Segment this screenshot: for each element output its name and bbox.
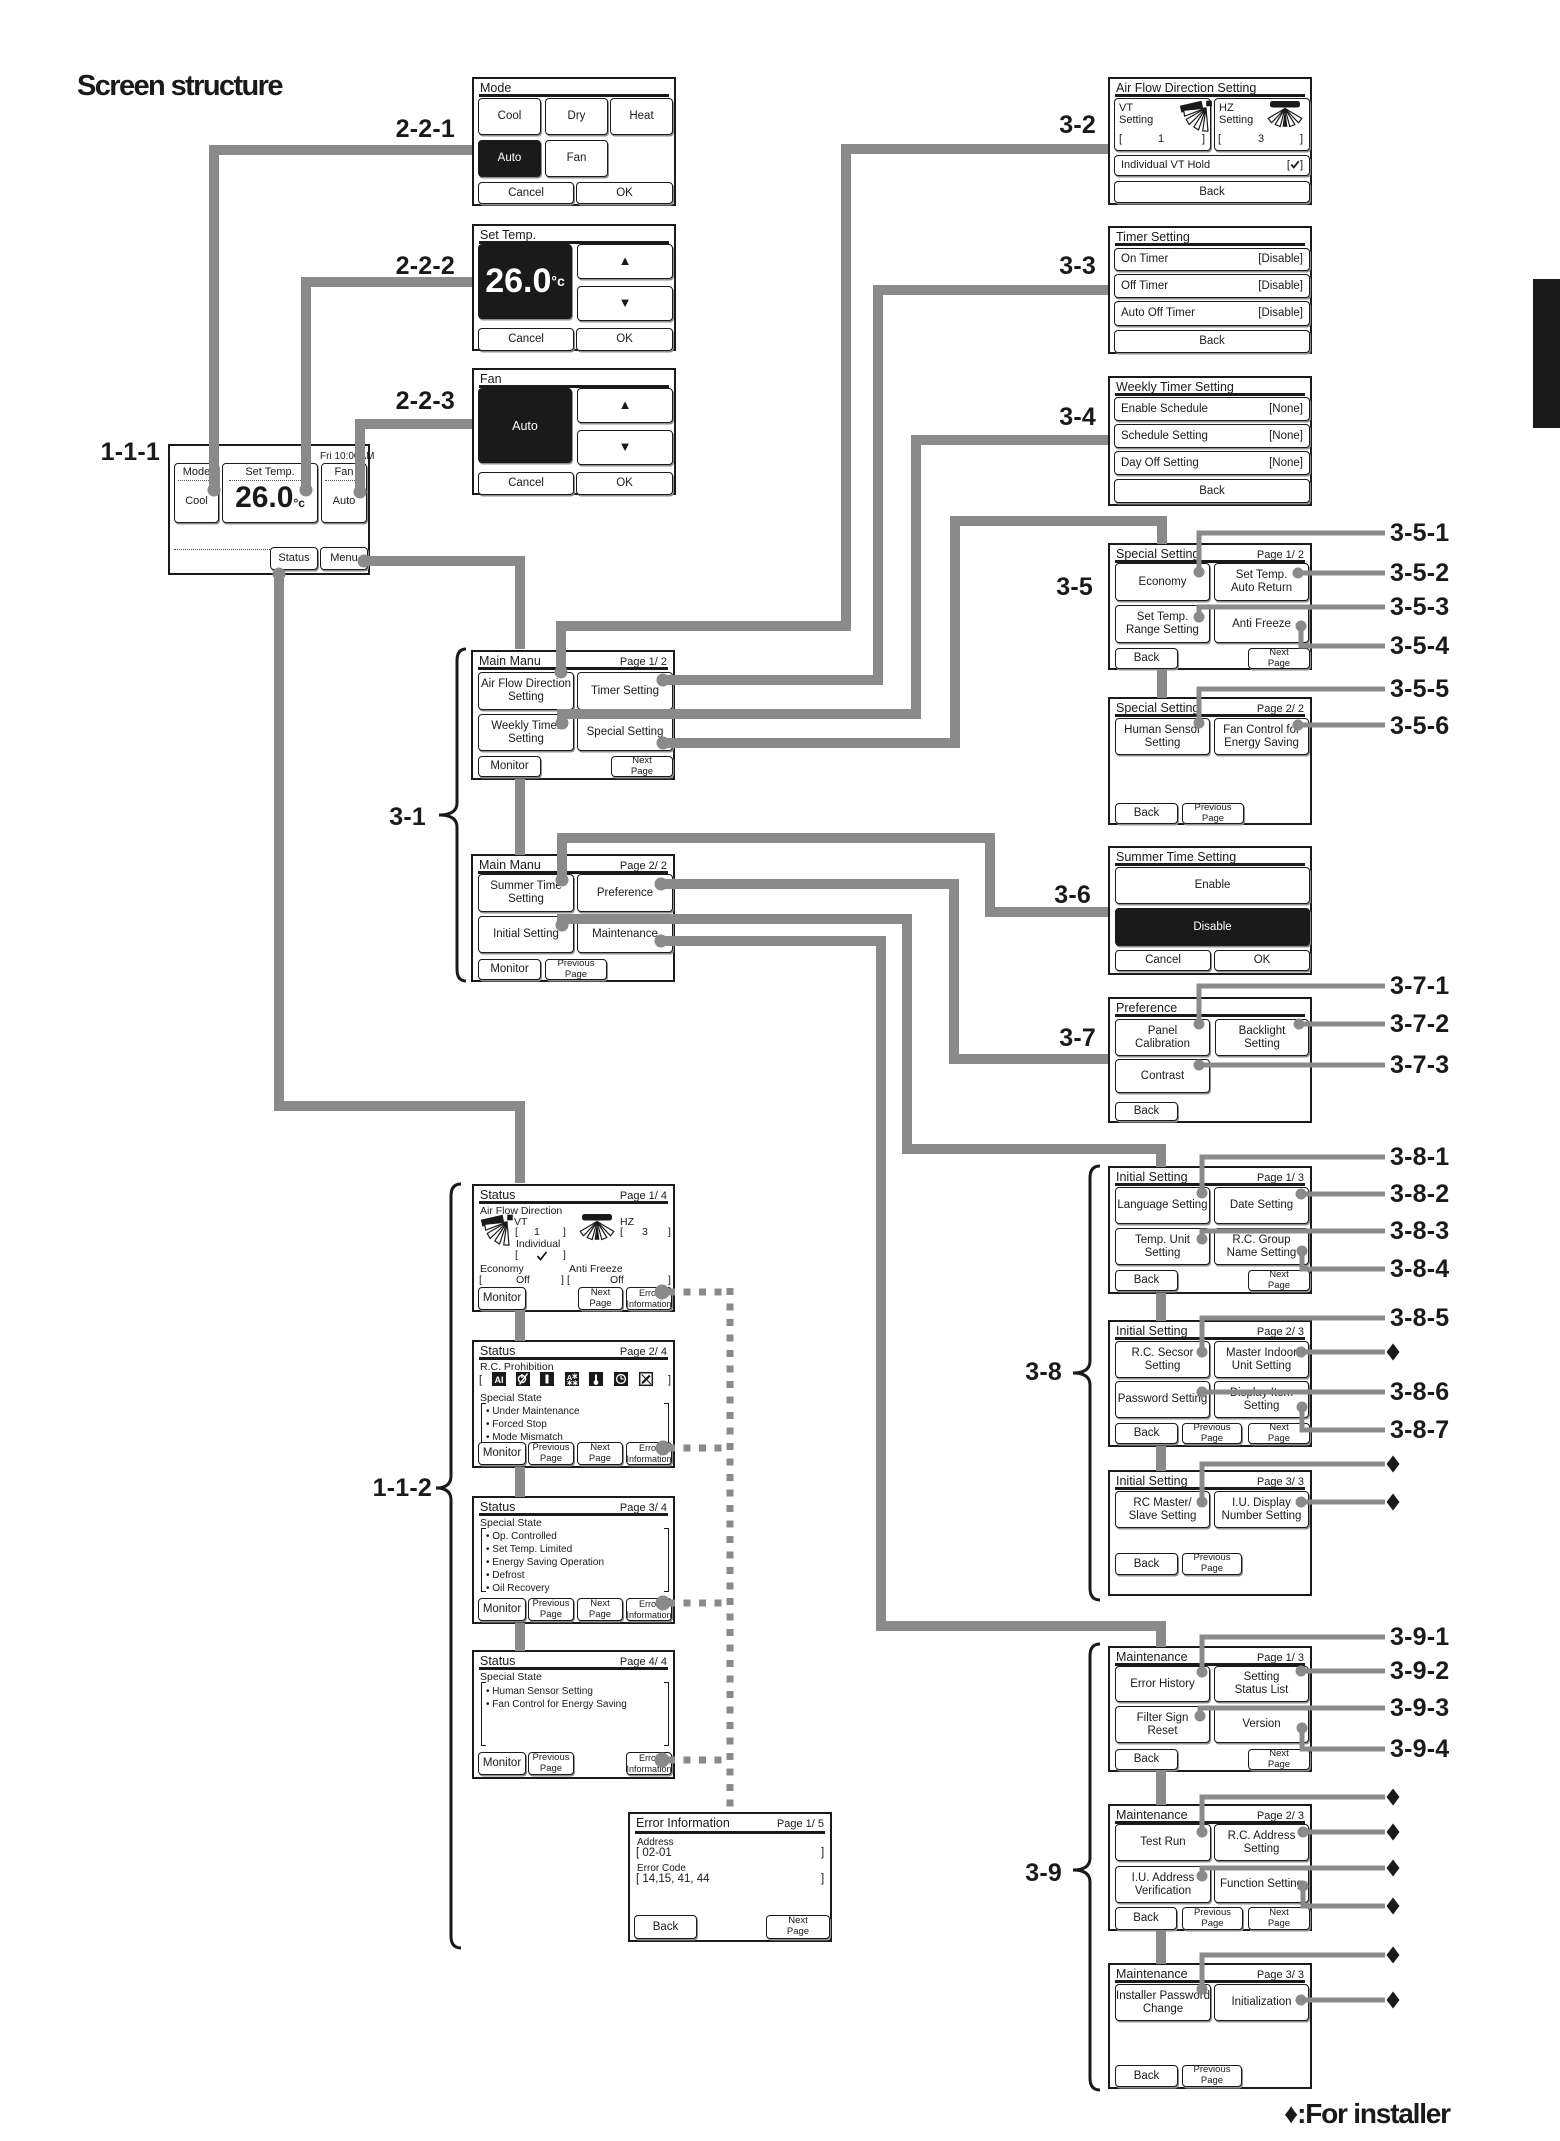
wire 3-5 Special Setting wire bbox=[663, 521, 1162, 743]
label 3-2 bbox=[946, 111, 1096, 140]
node 3-6 tap on Summer Time Setting bbox=[556, 874, 569, 887]
wire 3-7 Preference wire bbox=[661, 884, 1108, 1059]
wire installer pointer from Initialization bbox=[1296, 1995, 1386, 2006]
screen 2-2-3 Fan bbox=[472, 368, 676, 495]
wire installer pointer from IU Display Number bbox=[1296, 1497, 1386, 1508]
node 3-5 tap on Special Setting bbox=[657, 737, 670, 750]
label 1-1-1 bbox=[10, 438, 160, 467]
label 3-7 bbox=[946, 1024, 1096, 1053]
wire 3-8-1 pointer from Language Setting bbox=[1197, 1157, 1386, 1199]
node 3-9 tap on Maintenance bbox=[655, 935, 668, 948]
wire 3-5-4 pointer from Anti Freeze bbox=[1296, 621, 1386, 647]
screen 3-4 Weekly Timer Setting bbox=[1108, 376, 1312, 506]
wire Initial 1/3 to 2/3 connector bbox=[1156, 1293, 1166, 1321]
label 3-7-3 bbox=[1390, 1051, 1449, 1080]
label 3-5-6 bbox=[1390, 712, 1449, 741]
label 3-5-5 bbox=[1390, 675, 1449, 704]
screen Status page 3/4 bbox=[472, 1496, 675, 1624]
HZ icon in Status 1/4 bbox=[580, 1214, 614, 1240]
wire Special 1/2 to 2/2 connector bbox=[1157, 669, 1167, 698]
wire installer pointer from Test Run bbox=[1197, 1797, 1386, 1838]
footnote diamond For installer bbox=[1284, 2098, 1450, 2130]
screen Status page 1/4 bbox=[472, 1184, 675, 1312]
brace 3-1 bbox=[439, 649, 466, 981]
wire installer pointer from RC Master Slave bbox=[1197, 1464, 1386, 1508]
label 3-9-2 bbox=[1390, 1657, 1449, 1686]
node 3-3 tap on Timer Setting bbox=[657, 674, 670, 687]
Initialization installer diamond marker bbox=[1387, 1992, 1400, 2009]
screen 3-8 Initial Setting page 1/3 bbox=[1108, 1166, 1312, 1294]
wire Main Manu 1/2 to 2/2 connector bbox=[515, 779, 525, 855]
screen 3-5 Special Setting page 1/2 bbox=[1108, 543, 1312, 670]
screen Main Manu page 2/2 bbox=[471, 854, 675, 982]
wire Status 3/4 to 4/4 connector bbox=[515, 1623, 525, 1651]
page title Screen structure bbox=[77, 70, 282, 103]
wire 3-8-4 pointer from R.C. Group Name Setting bbox=[1297, 1246, 1386, 1270]
VT icon in screen 3-2 bbox=[1180, 101, 1212, 132]
node tap on Menu bbox=[358, 555, 371, 568]
screen Special Setting page 2/2 bbox=[1108, 697, 1312, 825]
wire 3-5-5 pointer from Human Sensor Setting bbox=[1194, 689, 1386, 729]
wire dashed Error Information links bbox=[668, 1288, 730, 1811]
screen 3-7 Preference bbox=[1108, 997, 1312, 1123]
brace 3-8 bbox=[1073, 1166, 1100, 1600]
wire 3-8-7 pointer from Display Item Setting bbox=[1297, 1402, 1386, 1431]
wire Menu to Main Manu 1/2 bbox=[364, 561, 520, 649]
screen 3-3 Timer Setting bbox=[1108, 226, 1312, 354]
Function Setting installer diamond marker bbox=[1387, 1898, 1400, 1915]
R.C. Prohibition icons row bbox=[492, 1372, 652, 1386]
label 3-6 bbox=[941, 881, 1091, 910]
IU Display Number installer diamond marker bbox=[1387, 1494, 1400, 1511]
node error info tap 4 bbox=[655, 1753, 670, 1768]
label 3-5 bbox=[943, 573, 1093, 602]
label 3-3 bbox=[946, 252, 1096, 281]
screen Initial Setting page 3/3 bbox=[1108, 1470, 1312, 1596]
wire 3-5-2 pointer from Set Temp. Auto Return bbox=[1293, 568, 1386, 579]
screen Maintenance page 3/3 bbox=[1108, 1963, 1312, 2089]
wire 3-8 Initial Setting wire bbox=[562, 919, 1161, 1167]
screen 2-2-1 Mode bbox=[472, 77, 676, 206]
wire installer pointer from IU Address Verification bbox=[1197, 1868, 1386, 1882]
wire 3-3 Timer Setting wire bbox=[663, 290, 1108, 680]
node error info tap 2 bbox=[656, 1441, 671, 1456]
wire Maintenance 1/3 to 2/3 connector bbox=[1156, 1771, 1166, 1805]
wire 3-7-3 pointer from Contrast bbox=[1194, 1060, 1386, 1071]
screen 3-6 Summer Time Setting bbox=[1108, 846, 1312, 975]
wire 3-5-3 pointer from Set Temp. Range Setting bbox=[1194, 607, 1386, 623]
wire 3-5-6 pointer from Fan Control bbox=[1293, 720, 1386, 731]
HZ icon in screen 3-2 bbox=[1268, 101, 1302, 127]
wire Initial 2/3 to 3/3 connector bbox=[1156, 1446, 1166, 1471]
label 3-5-4 bbox=[1390, 632, 1449, 661]
Test Run installer diamond marker bbox=[1387, 1789, 1400, 1806]
wire 3-2 Air Flow Direction wire bbox=[561, 149, 1108, 672]
wire 2-2-3 from Fan to Fan screen bbox=[360, 424, 472, 492]
node 3-8 tap on Initial Setting bbox=[556, 919, 569, 932]
node 3-4 tap on Weekly Timer Setting bbox=[556, 717, 569, 730]
label 3-9-3 bbox=[1390, 1694, 1449, 1723]
node error info tap 1 bbox=[655, 1285, 670, 1300]
screen Status page 4/4 bbox=[472, 1650, 675, 1779]
node 2-2-2 tap on Set Temp. bbox=[300, 484, 313, 497]
RC Address installer diamond marker bbox=[1387, 1824, 1400, 1841]
wire installer pointer from Installer Password Change bbox=[1197, 1955, 1386, 1995]
label 3-1 bbox=[276, 803, 426, 832]
Installer Password installer diamond marker bbox=[1387, 1947, 1400, 1964]
label 3-9-4 bbox=[1390, 1735, 1449, 1764]
wire 3-6 Summer Time wire bbox=[562, 838, 1108, 912]
label 3-7-2 bbox=[1390, 1010, 1449, 1039]
label 1-1-2 bbox=[282, 1474, 432, 1503]
wire Status to Status 1/4 bbox=[279, 574, 520, 1183]
screen 3-2 Air Flow Direction Setting bbox=[1108, 77, 1312, 205]
wire 3-9-1 pointer from Error History bbox=[1197, 1637, 1386, 1678]
wire 3-4 Weekly Timer wire bbox=[562, 440, 1108, 722]
label 3-8-3 bbox=[1390, 1217, 1449, 1246]
screen Main Manu page 1/2 bbox=[471, 650, 675, 780]
label 3-8-1 bbox=[1390, 1143, 1449, 1172]
screen Status page 2/4 bbox=[472, 1340, 675, 1468]
wire 3-8-5 pointer from R.C. Secsor Setting bbox=[1197, 1318, 1386, 1358]
node 2-2-1 tap on Cool bbox=[208, 484, 221, 497]
VT icon in Status 1/4 bbox=[481, 1215, 513, 1246]
wire 2-2-1 from Cool to Mode screen bbox=[214, 150, 472, 490]
wire Maintenance 2/3 to 3/3 connector bbox=[1156, 1930, 1166, 1964]
wire 3-9-4 pointer from Version bbox=[1297, 1723, 1386, 1750]
wire 3-8-6 pointer from Password Setting bbox=[1197, 1387, 1386, 1398]
node 2-2-3 tap on Fan bbox=[354, 486, 367, 499]
wire Status 1/4 to 2/4 connector bbox=[515, 1311, 525, 1341]
label 2-2-1 bbox=[305, 115, 455, 144]
screen Error Information bbox=[628, 1812, 832, 1942]
label 3-8-7 bbox=[1390, 1416, 1449, 1445]
label 3-5-1 bbox=[1390, 519, 1449, 548]
label 3-8-4 bbox=[1390, 1255, 1449, 1284]
IU Address installer diamond marker bbox=[1387, 1860, 1400, 1877]
screen Maintenance page 2/3 bbox=[1108, 1804, 1312, 1931]
label 3-7-1 bbox=[1390, 972, 1449, 1001]
screen Initial Setting page 2/3 bbox=[1108, 1320, 1312, 1447]
label 3-4 bbox=[946, 403, 1096, 432]
label 3-8-5 bbox=[1390, 1304, 1449, 1333]
label 3-8-6 bbox=[1390, 1378, 1449, 1407]
label 3-5-3 bbox=[1390, 593, 1449, 622]
label 2-2-3 bbox=[305, 387, 455, 416]
wire installer pointer from Function Setting bbox=[1298, 1881, 1386, 1907]
node 3-2 tap on Air Flow Direction Setting bbox=[555, 666, 568, 679]
wire 3-9-3 pointer from Filter Sign Reset bbox=[1195, 1708, 1386, 1722]
label 3-8-2 bbox=[1390, 1180, 1449, 1209]
label 2-2-2 bbox=[305, 252, 455, 281]
RC Master Slave installer diamond marker bbox=[1387, 1456, 1400, 1473]
screen 3-9 Maintenance page 1/3 bbox=[1108, 1646, 1312, 1772]
wire 3-8-3 pointer from Temp. Unit Setting bbox=[1197, 1231, 1386, 1245]
label 3-9-1 bbox=[1390, 1623, 1449, 1652]
wire 3-7-2 pointer from Backlight Setting bbox=[1294, 1019, 1386, 1030]
label 3-8 bbox=[912, 1358, 1062, 1387]
Master Indoor Unit installer diamond marker bbox=[1387, 1344, 1400, 1361]
wire 3-9 Maintenance wire bbox=[661, 941, 1161, 1647]
node 3-7 tap on Preference bbox=[655, 878, 668, 891]
wire 3-7-1 pointer from Panel Calibration bbox=[1194, 986, 1386, 1030]
brace 3-9 bbox=[1073, 1644, 1100, 2090]
wire 3-9-2 pointer from Setting Status List bbox=[1296, 1666, 1386, 1677]
wire 2-2-2 from Set Temp to Set Temp screen bbox=[306, 282, 472, 490]
wire installer pointer from Master Indoor Unit Setting bbox=[1296, 1347, 1386, 1358]
brace 1-1-2 bbox=[436, 1184, 461, 1948]
black side tab bbox=[1533, 279, 1560, 428]
node error info tap 3 bbox=[656, 1596, 671, 1611]
label 3-5-2 bbox=[1390, 559, 1449, 588]
wire Status 2/4 to 3/4 connector bbox=[515, 1467, 525, 1497]
wire 3-5-1 pointer from Economy bbox=[1194, 533, 1386, 578]
screen 1-1-1 controller top screen bbox=[168, 444, 370, 575]
label 3-9 bbox=[912, 1859, 1062, 1888]
screen 2-2-2 Set Temp. bbox=[472, 224, 676, 351]
wire 3-8-2 pointer from Date Setting bbox=[1296, 1189, 1386, 1200]
node tap on Status bbox=[273, 568, 286, 581]
wire installer pointer from RC Address Setting bbox=[1298, 1827, 1386, 1838]
